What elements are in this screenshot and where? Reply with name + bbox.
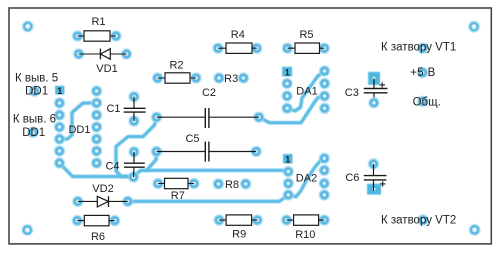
wire DD1 pin2-right to pin5-left hook — [60, 103, 97, 139]
svg-text:К выв. 5: К выв. 5 — [15, 73, 58, 85]
wire DA1 left pin4 to DA1 right pin1 — [287, 71, 325, 111]
svg-text:R9: R9 — [232, 229, 246, 241]
resistor R10 — [281, 215, 330, 241]
node K vyv.6 DD1 pad — [27, 127, 38, 138]
svg-text:1: 1 — [285, 67, 290, 77]
IC DA1 pin1 square pad — [282, 67, 292, 78]
svg-text:R3: R3 — [224, 73, 238, 85]
node Obshch pad — [417, 96, 428, 107]
svg-text:VD2: VD2 — [92, 183, 113, 195]
svg-text:R6: R6 — [91, 231, 105, 243]
svg-text:DD1: DD1 — [25, 86, 48, 98]
svg-text:R4: R4 — [231, 29, 245, 41]
node K vyv.5 DD1 label — [15, 73, 58, 98]
resistor R5 — [282, 29, 330, 54]
mounting hole bottom-right — [469, 224, 480, 235]
svg-text:C1: C1 — [106, 103, 120, 115]
svg-text:C4: C4 — [105, 161, 119, 173]
wire C4 bottom to DA2 pin2 bus — [134, 170, 289, 176]
node +5V pad — [417, 67, 428, 78]
capacitor C4 — [105, 146, 144, 182]
IC DA1 left pads — [282, 78, 293, 114]
svg-text:1: 1 — [285, 155, 290, 165]
node K vyv.5 DD1 pad — [29, 86, 40, 97]
resistor R1 — [72, 16, 122, 42]
wire C5 left pad drop to bus — [147, 152, 157, 171]
node K zatvoru VT1 pad — [417, 43, 428, 54]
resistor R7 — [153, 178, 200, 202]
svg-text:R1: R1 — [91, 16, 105, 28]
IC DD1 left pads — [54, 98, 65, 169]
IC DA2 left pads — [283, 166, 294, 200]
wire C2 left pad down to C4 bottom pad — [116, 117, 157, 176]
capacitor C6 — [345, 158, 386, 194]
capacitor C2 — [151, 87, 264, 128]
capacitor C3 — [345, 72, 388, 108]
svg-text:К выв. 6: К выв. 6 — [13, 114, 56, 126]
resistor R6 — [72, 215, 120, 243]
svg-text:C2: C2 — [202, 87, 216, 99]
svg-text:C5: C5 — [185, 133, 199, 145]
svg-text:DA1: DA1 — [296, 86, 317, 98]
node K zatvoru VT2 pad — [418, 215, 429, 226]
svg-text:К затвору VT1: К затвору VT1 — [381, 42, 456, 54]
capacitor C5 — [151, 133, 262, 162]
svg-text:VD1: VD1 — [96, 63, 117, 75]
svg-text:R7: R7 — [171, 190, 185, 202]
wire DA2 left pin4 to DA2 right pin1 — [288, 158, 324, 196]
mounting hole top-left — [22, 21, 33, 32]
capacitor C1 — [106, 91, 145, 126]
resistor R8 — [213, 178, 251, 191]
IC DD1 right pads — [91, 86, 102, 169]
svg-text:К затвору VT2: К затвору VT2 — [381, 214, 456, 226]
IC DD1 pin1 square pad — [55, 86, 64, 96]
IC DA2 pin1 square pad — [283, 154, 293, 165]
wire DD1 pin7 to C4 bottom bus — [60, 163, 134, 177]
resistor R2 — [152, 60, 201, 84]
IC DA1 right pads — [319, 66, 330, 114]
diode VD1 — [73, 49, 132, 76]
diode VD2 — [72, 183, 133, 207]
node K vyv.6 DD1 label — [13, 114, 56, 139]
svg-text:C6: C6 — [345, 172, 359, 184]
svg-text:C3: C3 — [345, 87, 359, 99]
wire C2 right pad to DA1 right pin2 — [259, 96, 325, 123]
svg-text:1: 1 — [57, 86, 62, 96]
svg-text:R8: R8 — [225, 179, 239, 191]
resistor R4 — [213, 29, 263, 54]
svg-text:R2: R2 — [169, 60, 183, 72]
wire VD2 right pad to DA2 left pin4 bus — [128, 195, 289, 202]
svg-text:DD1: DD1 — [22, 127, 45, 139]
svg-text:Общ.: Общ. — [413, 97, 441, 109]
resistor R3 — [214, 73, 249, 86]
svg-text:R5: R5 — [299, 29, 313, 41]
resistor R9 — [214, 215, 263, 241]
svg-text:R10: R10 — [295, 229, 315, 241]
mounting hole top-right — [468, 21, 479, 32]
IC DA2 right pads — [319, 153, 330, 201]
mounting hole bottom-left — [22, 224, 33, 235]
svg-text:+5 В: +5 В — [410, 67, 436, 79]
svg-text:DA2: DA2 — [296, 173, 317, 185]
svg-text:DD1: DD1 — [68, 124, 90, 136]
